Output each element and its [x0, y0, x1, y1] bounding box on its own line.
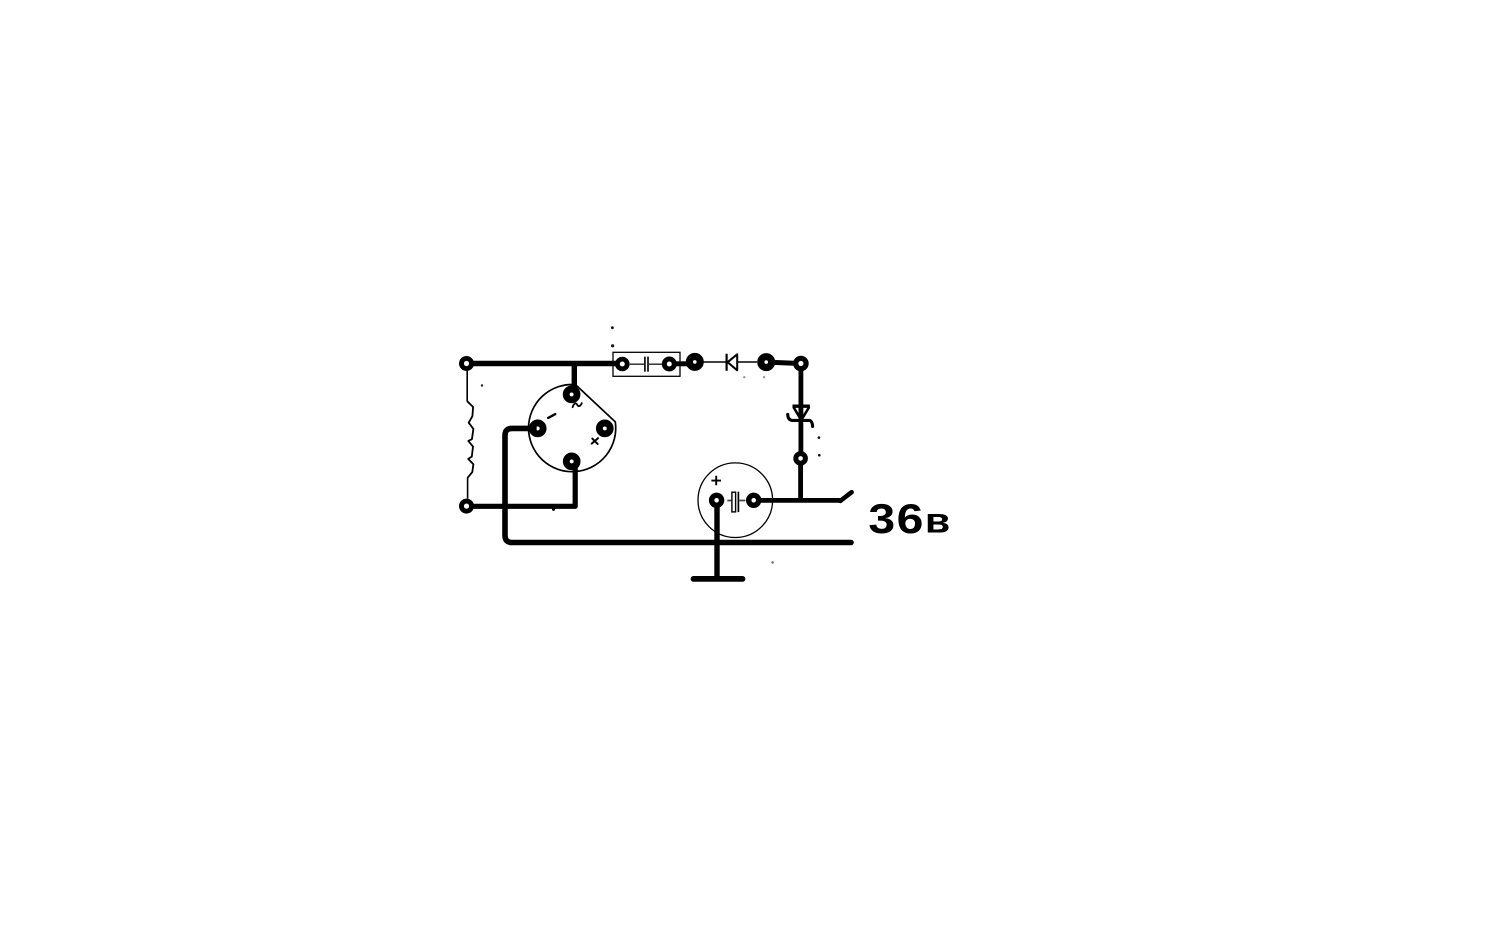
faint speck below diode row left: [743, 376, 745, 378]
wire: thin lead from X1 down to coil: [466, 371, 468, 402]
wire: from X2 right then up to generator bottom terminal: [472, 466, 575, 506]
generator top terminal (~): [566, 389, 577, 400]
label + (plus mark inside generator): [592, 438, 598, 444]
diode VD1 (cathode bar left, triangle pointing left): [727, 354, 738, 371]
stray ink speck above C1 box lower: [611, 344, 614, 347]
capacitor C1 box outline: [613, 352, 680, 376]
node ring above capacitor branch: [796, 454, 806, 464]
C1 right terminal ring: [664, 359, 674, 369]
C2 right terminal ring: [749, 495, 759, 505]
wire: top bus from terminal X1 to capacitor box: [472, 361, 620, 367]
faint speck below diode row right: [763, 376, 765, 378]
ground bar: [694, 576, 743, 582]
stray ink blob under X2 wire: [552, 508, 555, 511]
wire: stub from top bus down to generator top terminal: [572, 364, 577, 393]
generator bottom terminal: [566, 456, 577, 467]
terminal X2 (bottom-left): [461, 501, 471, 511]
wire: thin lead from VD1 to junction: [738, 361, 757, 363]
junction node (filled) after VD1: [761, 357, 772, 368]
stray ink speck right of zener wire lower: [818, 454, 821, 457]
wire: generator left terminal, left then down then bottom bus to the right (36v minus rail): [505, 428, 851, 542]
generator/rectifier body (circle with flattened top-right chord): [529, 384, 616, 471]
inductor L1 (generator winding): [467, 401, 473, 478]
C1 capacitor symbol (leads and plates): [630, 357, 662, 372]
svg-text:36в: 36в: [868, 495, 951, 542]
wire: down from corner ring to zener: [799, 371, 804, 453]
label ~ (AC mark inside generator): [573, 403, 582, 407]
wire: short thick link C1 to junction: [674, 361, 688, 366]
generator right terminal (+): [599, 423, 610, 434]
electrolytic capacitor C2 envelope circle: [698, 463, 773, 538]
stray ink speck right of zener wire upper: [818, 436, 821, 439]
C1 left terminal ring: [617, 359, 627, 369]
C2 left terminal ring: [712, 495, 722, 505]
faint speck below bottom bus: [771, 561, 774, 564]
wire: plus rail from C2 to switch: [760, 498, 841, 503]
switch open contact (hook up at right): [840, 492, 851, 501]
wire: thin lead to diode VD1: [703, 361, 726, 363]
label 36v supply: [868, 495, 951, 542]
wire: short thick link to corner ring: [773, 360, 794, 366]
label + (polarity of C2): [711, 476, 721, 485]
label - (minus mark inside generator): [548, 414, 555, 418]
zener diode VD2 (triangle down, hooked cathode bar): [788, 406, 813, 426]
stray ink speck above C1 box: [611, 326, 614, 329]
generator left terminal (-): [532, 423, 543, 434]
stray ink speck near coil top: [481, 384, 483, 386]
C2 plates (hollow positive plate, solid negative plate): [727, 492, 745, 512]
wire: thin lead from coil down to terminal X2: [467, 478, 469, 499]
corner node ring (top-right): [796, 358, 806, 368]
wire: from ring node down to plus rail: [798, 465, 803, 502]
terminal X1 (top-left): [461, 358, 471, 368]
wire: from C2 left terminal down to ground: [714, 507, 719, 577]
junction node (filled) after C1: [689, 357, 700, 368]
